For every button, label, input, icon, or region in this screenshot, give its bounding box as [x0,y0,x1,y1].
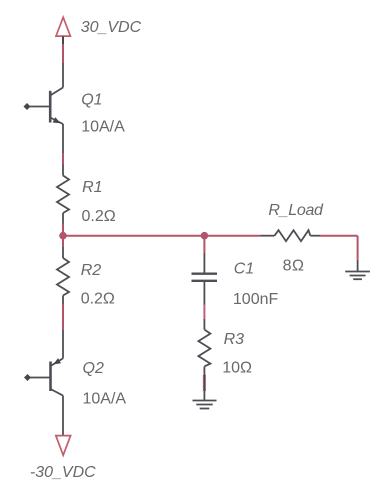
wire R2 to Q2 emitter [62,304,64,330]
resistor R_Load [261,230,321,241]
ground under R3 [193,389,217,409]
svg-text:8Ω: 8Ω [283,257,305,274]
wire output net horizontal (node row) [63,224,358,260]
svg-text:10Ω: 10Ω [222,360,252,377]
node junction at C1 [201,232,209,240]
svg-text:Q1: Q1 [81,91,102,108]
svg-text:-30_VDC: -30_VDC [30,464,96,481]
svg-text:0.2Ω: 0.2Ω [82,208,116,225]
transistor Q1 [24,63,64,153]
wire +30V to Q1 collector [62,44,64,63]
wire Q1 emitter to R1 [62,153,64,165]
wire R3 to ground [203,375,206,391]
transistor Q2 [24,330,63,436]
power -30V symbol [56,436,71,456]
svg-text:10A/A: 10A/A [83,390,127,407]
wire C1 to R3 [203,305,205,320]
svg-text:100nF: 100nF [233,291,279,308]
resistor R3 [198,319,210,379]
wire node to C1 [203,236,205,253]
svg-text:30_VDC: 30_VDC [81,19,142,36]
svg-text:10A/A: 10A/A [81,119,125,136]
svg-text:R_Load: R_Load [268,202,324,219]
svg-text:0.2Ω: 0.2Ω [81,291,115,308]
svg-text:R3: R3 [224,331,245,348]
power +30V symbol [56,17,70,44]
resistor R2 [57,246,69,304]
ground right (after R_Load) [345,260,370,279]
node junction at R1/R2 [59,232,67,240]
capacitor C1 [192,253,218,305]
svg-text:R1: R1 [82,179,102,196]
resistor R1 [57,165,69,224]
svg-text:C1: C1 [234,260,254,277]
svg-text:Q2: Q2 [83,360,104,377]
svg-text:R2: R2 [81,262,102,279]
